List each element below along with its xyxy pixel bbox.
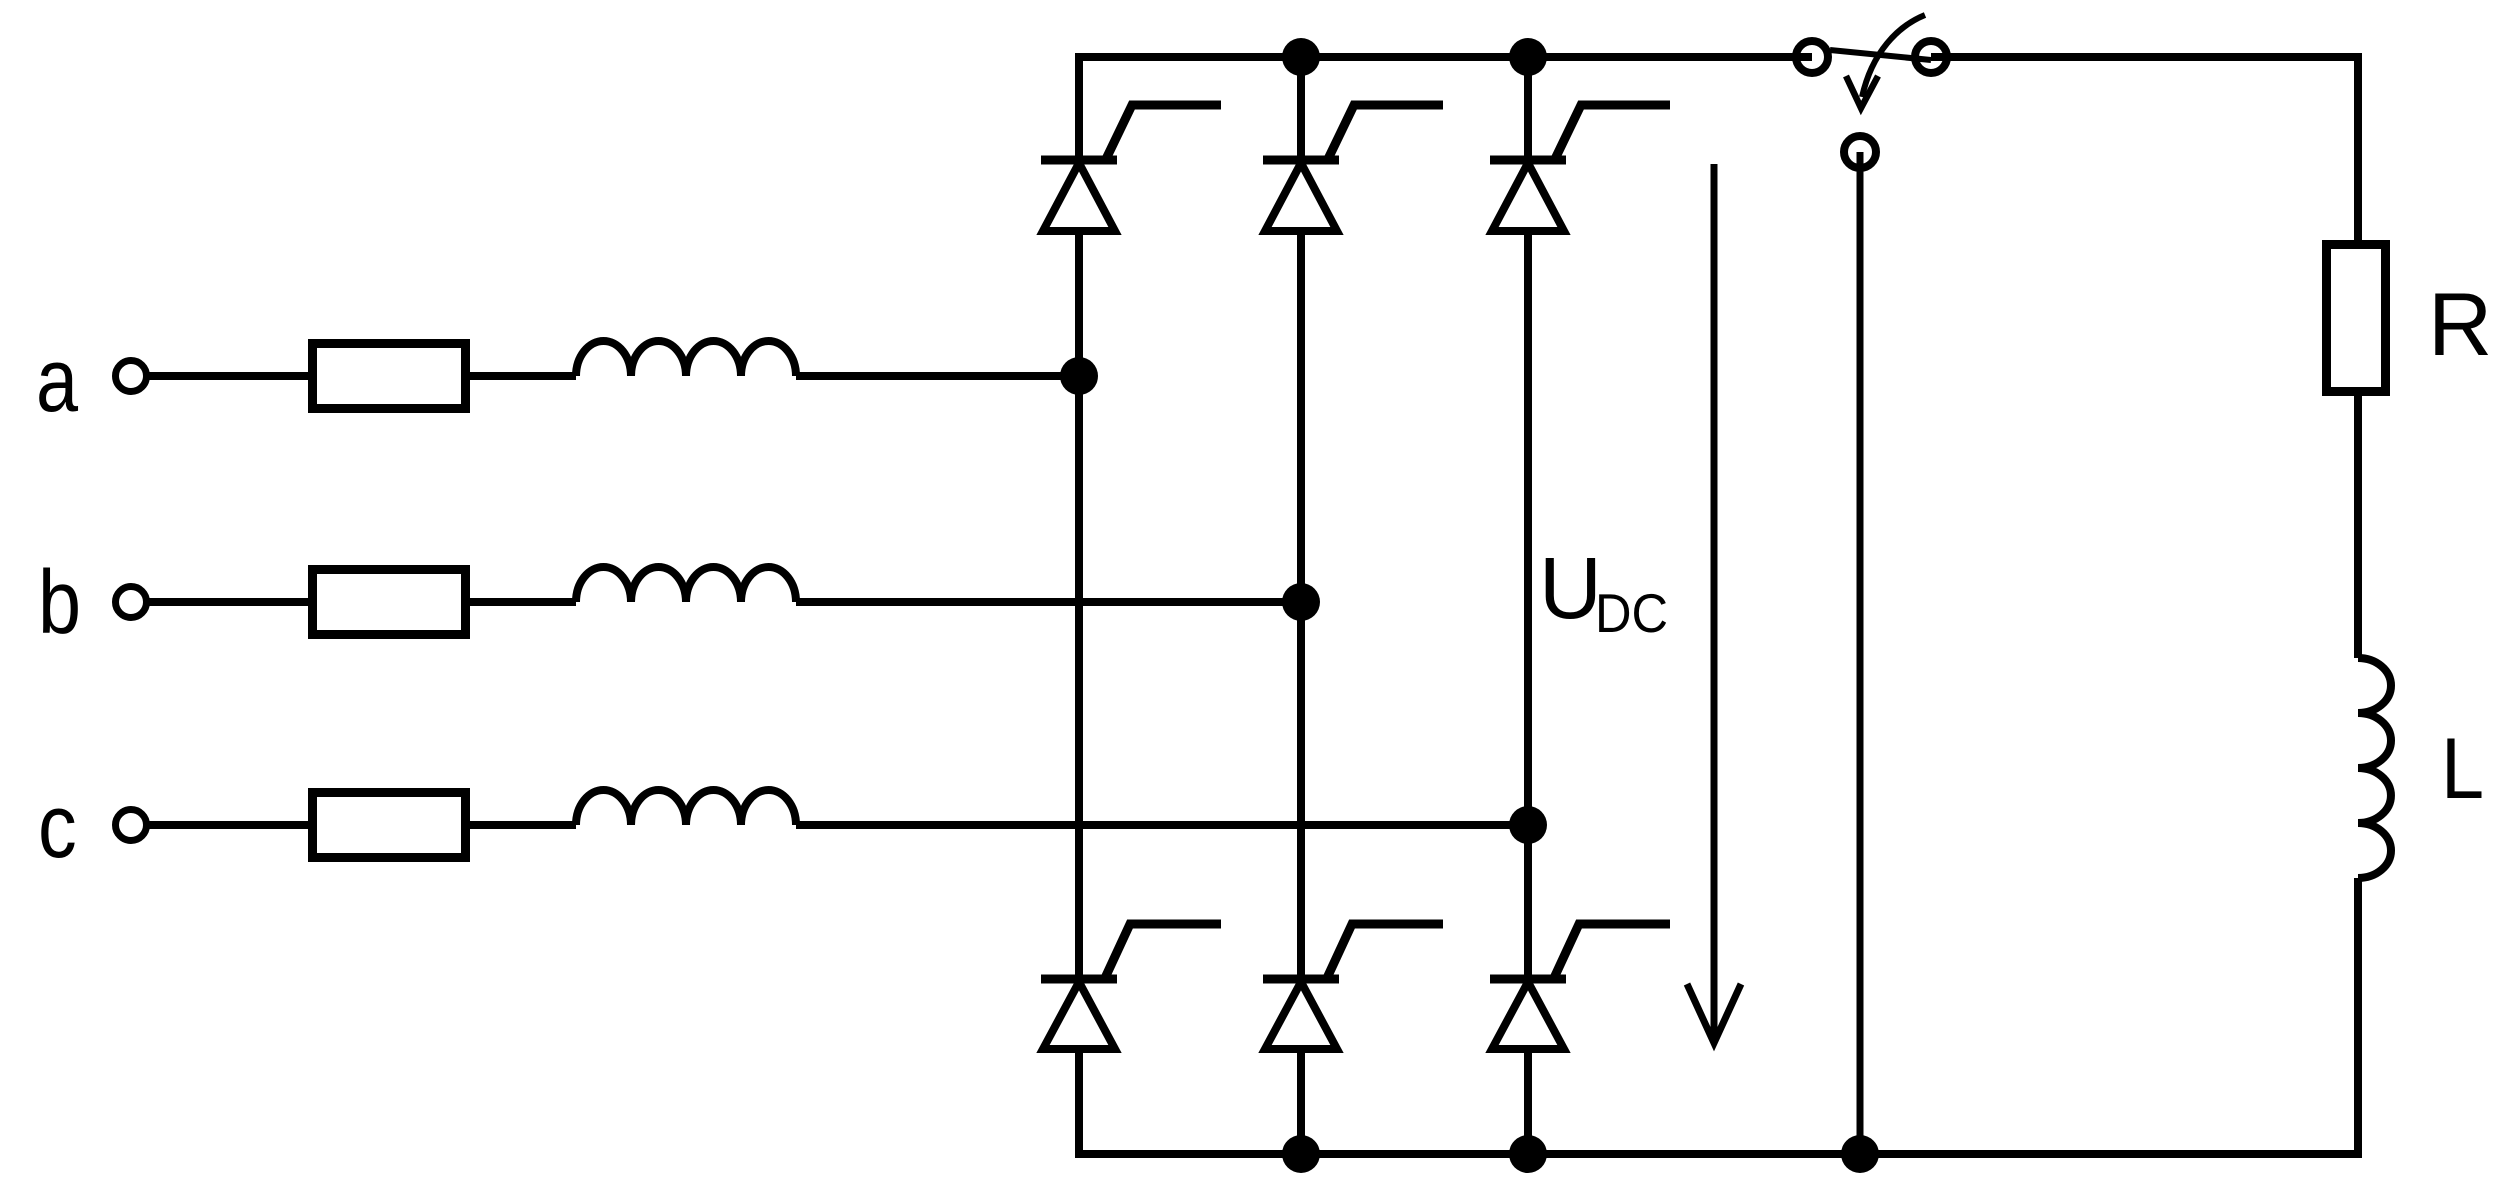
thyristor V2 (leg 3 bottom) (1490, 924, 1670, 1049)
switch motion arrowhead (1846, 76, 1878, 108)
wire c: resistor to inductor (470, 821, 576, 829)
wire a: resistor to inductor (470, 372, 576, 380)
node: leg 2 negative rail (1282, 1135, 1320, 1173)
resistor R (2327, 245, 2386, 392)
svg-text:a: a (36, 330, 79, 431)
wire: switch to resistor R (1931, 57, 2358, 240)
U_DC arrowhead (1687, 984, 1741, 1043)
terminal a (116, 361, 147, 392)
switch contact left (1796, 41, 1828, 73)
wire: bottom contact to negative rail (1857, 152, 1864, 1154)
resistor Rc (313, 793, 466, 858)
node: phase a / leg 1 (1060, 357, 1098, 395)
thyristor V1 (leg 1 top) (1041, 105, 1221, 231)
terminal c (116, 810, 147, 841)
svg-text:U: U (1539, 540, 1602, 637)
wire: positive DC rail with leg 1 anode drop (1079, 57, 1812, 160)
thyristor V5 (leg 3 top) (1490, 105, 1670, 231)
svg-text:b: b (38, 552, 81, 653)
thyristor V4 (leg 1 bottom) (1041, 924, 1221, 1049)
switch contact right (1915, 41, 1947, 73)
thyristor V3 (leg 2 top) (1263, 105, 1443, 231)
wire a: terminal to resistor (147, 372, 308, 380)
node: phase b / leg 2 (1282, 583, 1320, 621)
wire: negative DC rail from leg 1 to load return (1079, 878, 2358, 1154)
inductor Lc (576, 790, 796, 825)
inductor L (2358, 658, 2391, 878)
label U_DC (1539, 540, 1668, 644)
switch blade (1830, 50, 1931, 60)
wire: leg 2 top (1297, 57, 1305, 160)
wire: leg 2 bottom (1297, 1049, 1305, 1154)
wire b: terminal to resistor (147, 598, 308, 606)
wire: leg 1 mid (1075, 231, 1083, 979)
node: switch branch negative rail (1841, 1135, 1879, 1173)
resistor Rb (313, 570, 466, 635)
wire: leg 2 mid (1297, 231, 1305, 979)
wire c: inductor to bridge leg 3 (796, 821, 1528, 829)
wire: leg 3 bottom (1524, 1049, 1532, 1154)
wire b: inductor to bridge leg 2 (796, 598, 1301, 606)
wire: R to L (2354, 396, 2362, 658)
inductor La (576, 341, 796, 376)
wire c: terminal to resistor (147, 821, 308, 829)
node: leg 3 positive rail (1509, 38, 1547, 76)
U_DC arrow shaft (1711, 164, 1718, 1043)
svg-text:c: c (38, 776, 77, 877)
svg-text:DC: DC (1595, 583, 1668, 644)
switch contact bottom (1844, 136, 1876, 168)
wire: leg 3 mid (1524, 231, 1532, 979)
svg-text:L: L (2441, 721, 2484, 817)
node: phase c / leg 3 (1509, 806, 1547, 844)
inductor Lb (576, 567, 796, 602)
svg-text:R: R (2428, 274, 2492, 374)
wire b: resistor to inductor (470, 598, 576, 606)
node: leg 3 negative rail (1509, 1135, 1547, 1173)
wire: leg 3 top (1524, 57, 1532, 160)
terminal b (116, 587, 147, 618)
thyristor V6 (leg 2 bottom) (1263, 924, 1443, 1049)
wire a: inductor to bridge leg 1 (796, 372, 1079, 380)
resistor Ra (313, 344, 466, 409)
node: leg 2 positive rail (1282, 38, 1320, 76)
switch motion arc (1862, 15, 1925, 97)
